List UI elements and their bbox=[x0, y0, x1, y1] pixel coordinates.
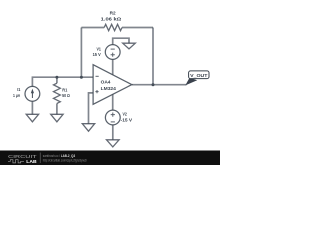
svg-text:OA4: OA4 bbox=[101, 80, 111, 86]
svg-text:V_OUT: V_OUT bbox=[190, 73, 208, 78]
node junction feedback/output bbox=[152, 83, 155, 86]
node junction feedback/input bbox=[80, 76, 83, 79]
wire output net bbox=[132, 84, 187, 86]
svg-text:R1: R1 bbox=[62, 87, 67, 93]
wire R2 right lead bbox=[122, 27, 153, 29]
svg-text:santhosh.cc / LAB-2_Q3: santhosh.cc / LAB-2_Q3 bbox=[43, 154, 75, 158]
ground at op-amp non-inverting input bbox=[82, 124, 94, 132]
svg-text:I1: I1 bbox=[17, 87, 20, 93]
footer divider bbox=[39, 153, 41, 164]
node junction R1/input bbox=[55, 76, 58, 79]
svg-text:50 Ω: 50 Ω bbox=[62, 93, 70, 99]
V_OUT flag box bbox=[189, 71, 209, 79]
ground at V1 bbox=[123, 43, 136, 49]
voltage source V2 circle bbox=[105, 110, 120, 125]
ground below I1 bbox=[26, 114, 38, 122]
wire op-amp non-inverting input to ground bbox=[89, 93, 94, 124]
I1 arrow bbox=[31, 92, 33, 98]
V2 minus sign bbox=[111, 121, 115, 123]
wire right vertical down to output node bbox=[152, 28, 154, 85]
resistor R2 bbox=[104, 24, 122, 30]
wire feedback vertical bbox=[80, 28, 82, 78]
voltage source V1 circle bbox=[105, 45, 120, 60]
op-amp plus input sign bbox=[95, 90, 98, 93]
V1 plus sign bbox=[111, 53, 115, 57]
svg-text:1 µA: 1 µA bbox=[13, 93, 21, 99]
wire input net: I1 top lead and horizontal run to op-amp inverting input bbox=[32, 77, 93, 86]
V2 plus sign bbox=[111, 113, 115, 117]
op-amp minus input sign bbox=[96, 75, 99, 77]
svg-text:V1: V1 bbox=[97, 46, 102, 52]
wire V2 bottom lead bbox=[112, 125, 114, 140]
wire op-amp V- pin to V2 bbox=[112, 94, 114, 110]
op-amp U1 triangle bbox=[93, 65, 132, 105]
current source I1 circle bbox=[25, 86, 40, 101]
wire V1 top lead to ground bbox=[113, 38, 129, 45]
ground below V2 bbox=[107, 140, 120, 147]
svg-text:V2: V2 bbox=[123, 112, 128, 118]
ground below R1 bbox=[51, 114, 63, 122]
wire V1 bottom lead to op-amp V+ pin bbox=[112, 59, 114, 74]
svg-text:-15 V: -15 V bbox=[121, 118, 133, 124]
wire R1 top lead bbox=[56, 77, 58, 83]
V1 minus sign bbox=[111, 48, 115, 50]
svg-text:http://circuitlab.com/csp/L2fg: http://circuitlab.com/csp/L2fgnzbpw2/ bbox=[43, 159, 87, 163]
svg-text:1.06 kΩ: 1.06 kΩ bbox=[101, 16, 122, 21]
svg-text:LM324: LM324 bbox=[101, 86, 117, 92]
svg-text:LAB: LAB bbox=[26, 159, 37, 164]
resistor R1 bbox=[54, 83, 61, 103]
wire I1 bottom lead bbox=[31, 101, 33, 114]
wire R2 left lead bbox=[81, 27, 104, 29]
footer bar bbox=[0, 151, 220, 166]
footer logo waveform bbox=[8, 160, 24, 163]
V_OUT flag tail bbox=[185, 78, 197, 86]
svg-text:15 V: 15 V bbox=[93, 52, 102, 58]
wire R1 bottom lead bbox=[56, 104, 58, 115]
